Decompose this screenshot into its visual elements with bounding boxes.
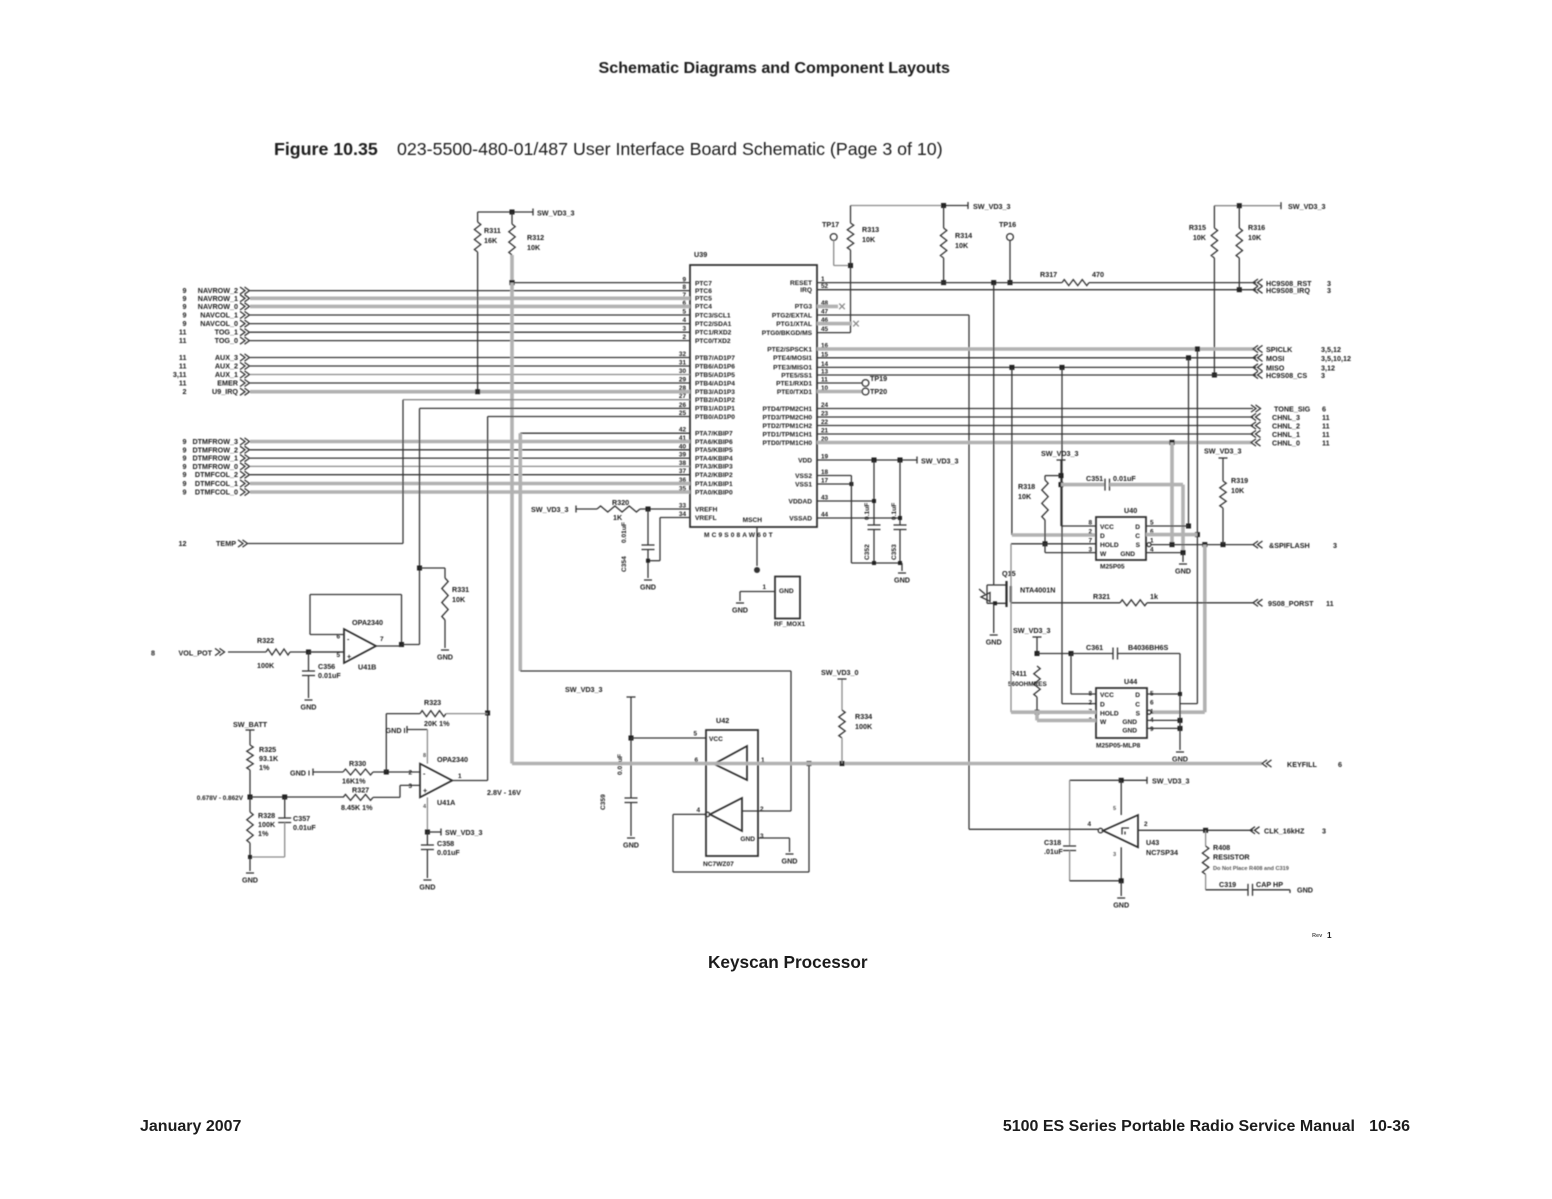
- svg-text:10K: 10K: [955, 241, 969, 250]
- svg-text:10K: 10K: [452, 595, 466, 604]
- ground rail below caps: [851, 562, 902, 564]
- wire VREFL loop: [660, 517, 690, 519]
- wire TEMP to vertical: [248, 543, 403, 545]
- ground (U42): [786, 853, 794, 855]
- svg-text:1k: 1k: [1150, 592, 1158, 601]
- wire: [250, 305, 690, 309]
- power SW_VD3_3 (above R313/R314): [851, 205, 944, 207]
- wire RESET net down to Q15: [993, 283, 995, 578]
- svg-text:VOL_POT: VOL_POT: [178, 649, 212, 658]
- wire: [250, 296, 690, 300]
- resistor R334 100K: [839, 710, 845, 738]
- capacitor C361 0.01uF: [1037, 653, 1071, 655]
- svg-text:SW_VD3_3: SW_VD3_3: [1041, 449, 1079, 458]
- wire MISO row: [817, 366, 1256, 368]
- node SPICLK (right connector): [1253, 345, 1258, 352]
- capacitor C318 .01uF: [1070, 779, 1122, 781]
- misc RF_MOX1 shield pad: [775, 577, 800, 619]
- svg-text:OPA2340: OPA2340: [437, 755, 468, 764]
- svg-text:TP19: TP19: [870, 374, 887, 383]
- svg-text:R316: R316: [1248, 223, 1265, 232]
- wire U43 supply/ground verticals: [1120, 847, 1122, 881]
- resistor R408 (do not place): [1205, 830, 1207, 846]
- wire SS1 row: [817, 374, 1256, 376]
- node HC9S08_CS (right connector): [1253, 371, 1258, 378]
- svg-text:D: D: [1100, 533, 1105, 540]
- svg-text:Rev: Rev: [1312, 933, 1323, 939]
- wire: [250, 365, 690, 367]
- wire PTB1 to U41B output vertical: [420, 407, 691, 409]
- svg-text:GND: GND: [640, 583, 656, 592]
- svg-text:NTA4001N: NTA4001N: [1020, 586, 1055, 595]
- svg-text:PTC1/RXD2: PTC1/RXD2: [695, 330, 732, 337]
- svg-text:10K: 10K: [1231, 486, 1245, 495]
- svg-text:C359: C359: [600, 794, 607, 810]
- node TONE_SIG (right connector): [1251, 405, 1256, 412]
- wire CHNL_2 row: [817, 425, 1253, 427]
- svg-text:GND: GND: [732, 606, 748, 615]
- wire U40 VCC pin8: [1061, 525, 1096, 527]
- svg-text:C358: C358: [437, 839, 454, 848]
- wire PTG1/XTAL NC stub: [817, 322, 852, 326]
- svg-text:5: 5: [1113, 806, 1116, 812]
- wire PTB0 to U41A output vertical: [488, 416, 690, 418]
- svg-text:GND: GND: [1120, 551, 1135, 558]
- svg-text:C356: C356: [318, 662, 335, 671]
- capacitor C354 0.01uF: [647, 509, 649, 545]
- svg-text:SW_BATT: SW_BATT: [233, 720, 268, 729]
- capacitor C356 0.01uF: [308, 652, 310, 671]
- svg-text:SW_VD3_3: SW_VD3_3: [445, 828, 483, 837]
- op buffer U42 box NC7WZ07: [706, 730, 758, 856]
- svg-text:10K: 10K: [527, 243, 541, 252]
- node HC9S08_IRQ (right connector): [1253, 286, 1258, 293]
- svg-text:R408: R408: [1213, 843, 1230, 852]
- wire VSSAD: [817, 517, 900, 519]
- resistor R411 560 OHM: [1034, 666, 1040, 697]
- power SW_VD3_3 (top right): [1214, 205, 1239, 207]
- svg-text:VSS2: VSS2: [795, 473, 812, 480]
- ground (C358): [423, 879, 431, 881]
- svg-text:GND I: GND I: [386, 726, 406, 735]
- wire U40 GND pin4: [1146, 552, 1183, 554]
- resistor R318 10K: [1045, 475, 1061, 477]
- svg-text:5: 5: [693, 731, 697, 738]
- svg-text:NC7SP34: NC7SP34: [1146, 848, 1178, 857]
- svg-text:PTE0/TXD1: PTE0/TXD1: [777, 389, 813, 396]
- resistor R313 10K (BKGD pull-up): [850, 206, 852, 224]
- svg-text:C: C: [1135, 533, 1140, 540]
- svg-text:8: 8: [423, 753, 426, 759]
- ground (U43): [1117, 897, 1125, 899]
- svg-text:D: D: [1100, 702, 1105, 709]
- svg-text:8.45K 1%: 8.45K 1%: [341, 803, 373, 812]
- wire MISO vertical to U40: [1011, 367, 1013, 535]
- wire: [250, 449, 690, 451]
- wire U42 GND pin3: [758, 837, 790, 839]
- wire SPICLK row: [817, 347, 1256, 351]
- svg-text:Do Not Place R408 and C319: Do Not Place R408 and C319: [1213, 866, 1289, 872]
- wire: [250, 474, 690, 476]
- svg-text:PTE4/MOSI1: PTE4/MOSI1: [773, 355, 812, 362]
- power SW_VD3_3 (VDD pin19): [817, 459, 917, 461]
- svg-text:PTD1/TPM1CH1: PTD1/TPM1CH1: [763, 431, 813, 438]
- svg-text:GND: GND: [1122, 728, 1137, 735]
- svg-text:R327: R327: [352, 786, 369, 795]
- svg-text:C319: C319: [1219, 880, 1236, 889]
- ground (C359): [627, 837, 635, 839]
- svg-text:023-5500-480-01/487 User Inter: 023-5500-480-01/487 User Interface Board…: [397, 139, 943, 159]
- svg-text:R322: R322: [257, 636, 274, 645]
- svg-text:TOG_0: TOG_0: [215, 336, 238, 345]
- svg-text:VCC: VCC: [709, 736, 723, 743]
- svg-text:C361: C361: [1086, 643, 1103, 652]
- wire U41A V- pin 4 with C358: [426, 797, 428, 832]
- wire PTC7 net (R312 to pin 9 and down to keyfill buffer): [510, 255, 514, 283]
- svg-text:TP16: TP16: [999, 220, 1016, 229]
- svg-text:SW_VD3_3: SW_VD3_3: [1013, 626, 1051, 635]
- svg-text:R325: R325: [259, 745, 276, 754]
- svg-text:0.01uF: 0.01uF: [1113, 474, 1136, 483]
- svg-text:PTD4/TPM2CH1: PTD4/TPM2CH1: [763, 406, 813, 413]
- svg-text:3,5,10,12: 3,5,10,12: [1321, 354, 1351, 363]
- svg-text:RESET: RESET: [790, 280, 812, 287]
- wire: [250, 314, 690, 316]
- svg-text:VCC: VCC: [1100, 692, 1114, 699]
- svg-text:PTC2/SDA1: PTC2/SDA1: [695, 321, 732, 328]
- svg-text:B4036BH6S: B4036BH6S: [1128, 643, 1169, 652]
- svg-text:560OHMRES: 560OHMRES: [1008, 681, 1047, 688]
- wire U40 HOLD pin7: [1011, 543, 1096, 545]
- svg-text:R330: R330: [349, 759, 366, 768]
- wire U44 HOLD pin7: [1010, 544, 1012, 712]
- svg-text:U40: U40: [1124, 506, 1137, 515]
- wire U42B output to PTA7 net: [742, 810, 791, 812]
- svg-text:C353: C353: [891, 544, 898, 560]
- wire: [250, 331, 690, 333]
- svg-text:10K: 10K: [1193, 233, 1207, 242]
- ground (Q15 source): [990, 634, 998, 636]
- svg-text:Keyscan Processor: Keyscan Processor: [708, 952, 868, 972]
- wire KEYFILL row: [512, 762, 1262, 766]
- svg-text:PTB7/AD1P7: PTB7/AD1P7: [695, 355, 735, 362]
- wire CHNL_1 row: [817, 433, 1253, 435]
- svg-text:1: 1: [1327, 931, 1332, 940]
- svg-text:PTG1/XTAL: PTG1/XTAL: [776, 321, 812, 328]
- wire PTG3 NC stub: [817, 305, 838, 309]
- resistor R311 16K: [477, 212, 479, 222]
- svg-text:0.01uF: 0.01uF: [293, 823, 316, 832]
- svg-text:GND: GND: [301, 703, 317, 712]
- resistor R315 10K (CS pull-up): [1213, 206, 1215, 228]
- node KEYFILL (right connector): [1262, 760, 1267, 767]
- wire U41B feedback loop: [310, 634, 344, 636]
- svg-text:VREFH: VREFH: [695, 506, 718, 513]
- svg-text:R323: R323: [424, 698, 441, 707]
- svg-text:10K: 10K: [862, 235, 876, 244]
- svg-text:TP20: TP20: [870, 387, 887, 396]
- wire VDDAD: [817, 500, 874, 502]
- wire U44 W pin3 tie: [1035, 712, 1039, 720]
- capacitor C352 0.1uF: [873, 460, 875, 525]
- resistor R331 10K: [420, 567, 446, 569]
- svg-text:SW_VD3_3: SW_VD3_3: [1204, 447, 1242, 456]
- wire: [250, 440, 690, 444]
- svg-text:KEYFILL: KEYFILL: [1287, 760, 1318, 769]
- svg-text:+: +: [423, 786, 427, 795]
- power SW_VD3_3 (U43): [1121, 779, 1147, 781]
- svg-text:VDD: VDD: [798, 457, 812, 464]
- ground (below C354): [644, 579, 652, 581]
- svg-text:PTA5/KBIP5: PTA5/KBIP5: [695, 447, 733, 454]
- svg-text:C354: C354: [621, 556, 628, 572]
- svg-text:R319: R319: [1231, 476, 1248, 485]
- svg-text:5: 5: [336, 652, 340, 659]
- wire PTA7 to U42 buffer vertical: [520, 432, 690, 434]
- wire U42 VCC pin5: [631, 737, 706, 739]
- svg-text:3: 3: [1327, 286, 1331, 295]
- wire U44 D pin5 (right): [1147, 693, 1180, 695]
- ground (divider): [246, 872, 254, 874]
- wire BKGD pin45 to R313: [817, 332, 851, 334]
- svg-text:PTE3/MISO1: PTE3/MISO1: [773, 365, 812, 372]
- svg-text:R315: R315: [1189, 223, 1206, 232]
- svg-text:1: 1: [1150, 709, 1154, 716]
- wire: [250, 357, 690, 359]
- svg-text:3: 3: [1333, 541, 1337, 550]
- wire divider bottom tie: [250, 856, 285, 858]
- svg-text:PTA0/KBIP0: PTA0/KBIP0: [695, 489, 733, 496]
- svg-text:PTB6/AD1P6: PTB6/AD1P6: [695, 363, 735, 370]
- wire TONE_SIG row: [817, 408, 1253, 410]
- svg-text:U41A: U41A: [437, 798, 455, 807]
- svg-text:PTE1/RXD1: PTE1/RXD1: [776, 380, 812, 387]
- svg-text:VSS1: VSS1: [795, 481, 812, 488]
- op buffer U42A triangle: [714, 746, 747, 780]
- wire: [250, 490, 690, 494]
- svg-text:10-36: 10-36: [1369, 1118, 1410, 1135]
- svg-text:U39: U39: [694, 250, 707, 259]
- svg-text:VREFL: VREFL: [695, 515, 717, 522]
- svg-text:PTD2/TPM1CH2: PTD2/TPM1CH2: [763, 423, 813, 430]
- resistor R323 20K 1% (feedback): [386, 713, 420, 715]
- svg-text:6: 6: [1338, 760, 1342, 769]
- svg-text:M25P05: M25P05: [1100, 564, 1125, 571]
- svg-text:SW_VD3_3: SW_VD3_3: [537, 209, 575, 218]
- svg-text:20K 1%: 20K 1%: [424, 719, 450, 728]
- node CLK_16KHZ (right connector): [1250, 827, 1255, 834]
- svg-text:9S08_PORST: 9S08_PORST: [1268, 599, 1314, 608]
- svg-text:PTB4/AD1P4: PTB4/AD1P4: [695, 380, 735, 387]
- svg-text:R328: R328: [258, 811, 275, 820]
- svg-text:GND: GND: [1122, 719, 1137, 726]
- svg-text:MC9S08AW60T: MC9S08AW60T: [704, 532, 775, 539]
- svg-text:PTE2/SPSCK1: PTE2/SPSCK1: [767, 346, 812, 353]
- wire PTB2 to TEMP vertical: [403, 399, 690, 401]
- svg-text:PTA1/KBIP1: PTA1/KBIP1: [695, 481, 733, 488]
- wire U40 D pin5 (right): [1146, 525, 1189, 527]
- svg-text:PTE5/SS1: PTE5/SS1: [781, 372, 812, 379]
- svg-text:PTA3/KBIP3: PTA3/KBIP3: [695, 464, 733, 471]
- resistor R325 93.1K 1%: [247, 745, 253, 770]
- svg-text:3: 3: [1113, 852, 1116, 858]
- svg-text:PTC7: PTC7: [695, 280, 712, 287]
- capacitor C357 0.01uF: [284, 797, 286, 818]
- ground (R331): [441, 649, 449, 651]
- wire U42B input loop from KEYFILL: [673, 813, 706, 815]
- wire U43 output to EXTAL net: [969, 828, 1098, 830]
- svg-text:11: 11: [179, 336, 187, 345]
- svg-text:PTB1/AD1P1: PTB1/AD1P1: [695, 406, 735, 413]
- svg-text:U9_IRQ: U9_IRQ: [212, 387, 238, 396]
- wire U40 W pin3 tie: [1044, 544, 1046, 553]
- wire MISO vertical to U44: [1061, 367, 1063, 703]
- svg-text:SW_VD3_3: SW_VD3_3: [1152, 777, 1190, 786]
- svg-text:SW_VD3_3: SW_VD3_3: [973, 202, 1011, 211]
- node HC9S08_RST (right connector): [1253, 279, 1258, 286]
- svg-text:SW_VD3_3: SW_VD3_3: [921, 457, 959, 466]
- svg-text:11: 11: [1326, 599, 1334, 608]
- svg-text:+: +: [347, 652, 351, 661]
- svg-text:SW_VD3_3: SW_VD3_3: [1288, 202, 1326, 211]
- svg-text:9: 9: [183, 488, 187, 497]
- wire U41A output: [452, 780, 487, 782]
- svg-text:PTA7/KBIP7: PTA7/KBIP7: [695, 431, 733, 438]
- resistor R316 10K (IRQ pull-up): [1238, 206, 1240, 228]
- wire CHNL_0 row: [817, 441, 1253, 445]
- svg-text:0.678V - 0.862V: 0.678V - 0.862V: [197, 795, 244, 802]
- svg-text:R318: R318: [1018, 482, 1035, 491]
- svg-text:U41B: U41B: [358, 663, 376, 672]
- capacitor C351 0.01uF: [1061, 483, 1105, 487]
- svg-text:C351: C351: [1086, 474, 1103, 483]
- svg-text:SPICLK: SPICLK: [1266, 345, 1293, 354]
- ground (U40): [1179, 563, 1187, 565]
- svg-text:R317: R317: [1040, 270, 1057, 279]
- svg-text:GND: GND: [779, 588, 794, 595]
- svg-text:.01uF: .01uF: [1044, 847, 1063, 856]
- power SW_VD3_3 (top left): [478, 211, 533, 213]
- svg-text:10K: 10K: [1248, 233, 1262, 242]
- svg-text:PTA4/KBIP4: PTA4/KBIP4: [695, 455, 733, 462]
- node 9S08_PORST (right connector): [1253, 599, 1258, 606]
- svg-text:U44: U44: [1124, 677, 1137, 686]
- svg-text:PTD0/TPM1CH0: PTD0/TPM1CH0: [763, 440, 813, 447]
- capacitor C319 CAP HP: [1205, 874, 1207, 889]
- svg-text:6: 6: [1150, 700, 1154, 707]
- capacitor C359 0.01uF: [630, 738, 632, 798]
- svg-text:100K: 100K: [855, 722, 873, 731]
- svg-text:2: 2: [1088, 700, 1092, 707]
- svg-text:R312: R312: [527, 233, 544, 242]
- svg-text:S: S: [1136, 711, 1141, 718]
- wire U44 S net vertical: [1203, 545, 1207, 713]
- svg-text:1K: 1K: [613, 513, 623, 522]
- wire IRQ row: [817, 289, 1256, 291]
- capacitor C358 0.01uF: [426, 832, 428, 845]
- svg-text:C: C: [1135, 702, 1140, 709]
- svg-text:GND: GND: [782, 857, 798, 866]
- svg-text:D: D: [1135, 524, 1140, 531]
- node CHNL_3 (right connector): [1251, 413, 1256, 420]
- svg-text:VCC: VCC: [1100, 524, 1114, 531]
- svg-text:11: 11: [1322, 439, 1330, 448]
- svg-text:2.8V - 16V: 2.8V - 16V: [487, 788, 521, 797]
- test point TP19: [817, 382, 862, 384]
- wire U44 VCC pin8: [1070, 654, 1072, 695]
- svg-text:8: 8: [151, 649, 155, 658]
- svg-text:GND: GND: [242, 876, 258, 885]
- svg-text:S: S: [1136, 542, 1141, 549]
- svg-text:PTC6: PTC6: [695, 288, 712, 295]
- svg-text:CAP HP: CAP HP: [1256, 880, 1283, 889]
- wire MOSI vertical to U40: [1188, 358, 1190, 526]
- svg-text:-: -: [347, 635, 350, 644]
- svg-text:HC9S08_CS: HC9S08_CS: [1266, 371, 1307, 380]
- wire SPIFLASH row (U40 S pin1): [1147, 543, 1151, 547]
- svg-text:PTC3/SCL1: PTC3/SCL1: [695, 312, 731, 319]
- svg-text:MOSI: MOSI: [1266, 354, 1284, 363]
- node &SPIFLASH (right connector): [1253, 541, 1258, 548]
- wire RESET row with resistor R317 470: [817, 282, 1062, 284]
- svg-text:93.1K: 93.1K: [259, 754, 279, 763]
- svg-text:SW_VD3_0: SW_VD3_0: [821, 668, 859, 677]
- svg-text:OPA2340: OPA2340: [352, 618, 383, 627]
- wire U41B + input: [309, 651, 345, 653]
- svg-text:1: 1: [458, 773, 462, 780]
- resistor R328 100K 1%: [249, 797, 251, 812]
- op flash U44 box: [1096, 688, 1147, 738]
- svg-text:R331: R331: [452, 585, 469, 594]
- svg-text:IRQ: IRQ: [800, 287, 812, 294]
- svg-text:PTB5/AD1P5: PTB5/AD1P5: [695, 372, 735, 379]
- svg-text:12: 12: [179, 539, 187, 548]
- svg-text:Schematic Diagrams and Compone: Schematic Diagrams and Component Layouts: [599, 59, 951, 77]
- svg-text:11: 11: [179, 379, 187, 388]
- svg-text:PTB0/AD1P0: PTB0/AD1P0: [695, 414, 735, 421]
- svg-text:3: 3: [408, 783, 412, 790]
- svg-text:M25P05-MLP8: M25P05-MLP8: [1096, 743, 1141, 750]
- wire CHNL_0 vertical to SPIFLASH row: [1170, 443, 1174, 545]
- wire: [250, 457, 690, 459]
- svg-text:PTG2/EXTAL: PTG2/EXTAL: [772, 312, 812, 319]
- wire: [250, 323, 690, 325]
- wire U44 GND pins 4,9: [1147, 719, 1180, 721]
- svg-text:GND: GND: [986, 638, 1002, 647]
- svg-text:GND: GND: [623, 841, 639, 850]
- svg-text:GND: GND: [1113, 901, 1129, 910]
- wire U40 C pin6 (right): [1146, 533, 1197, 537]
- svg-text:R313: R313: [862, 225, 879, 234]
- svg-text:PTC4: PTC4: [695, 304, 712, 311]
- resistor R319 10K: [1220, 481, 1226, 508]
- svg-text:D: D: [1135, 692, 1140, 699]
- svg-text:GND: GND: [1297, 886, 1313, 895]
- wire: [250, 374, 690, 376]
- resistor R314 10K (RESET pull-up): [943, 206, 945, 229]
- wire MOSI row: [817, 357, 1256, 359]
- wire VSS2/VSS1 to ground rail: [817, 475, 851, 477]
- svg-text:16K: 16K: [484, 236, 498, 245]
- svg-text:9: 9: [183, 470, 187, 479]
- wire U43 input from CLK_16KHZ: [1138, 829, 1253, 831]
- svg-text:&SPIFLASH: &SPIFLASH: [1269, 541, 1310, 550]
- svg-text:RESISTOR: RESISTOR: [1213, 853, 1250, 862]
- svg-text:W: W: [1100, 551, 1107, 558]
- svg-text:4: 4: [423, 804, 427, 810]
- svg-text:VDDAD: VDDAD: [789, 498, 813, 505]
- svg-text:-: -: [423, 769, 426, 778]
